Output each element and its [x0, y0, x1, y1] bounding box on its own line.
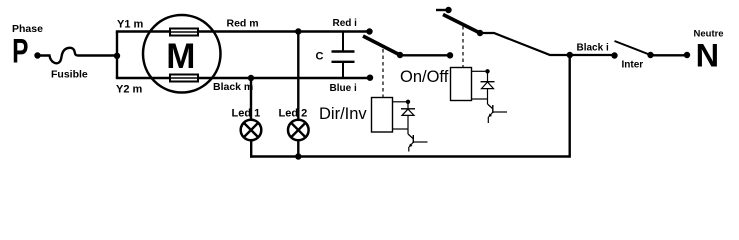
wire bottom rail: [250, 55, 570, 157]
svg-text:Red m: Red m: [227, 17, 259, 29]
wire bottom Y2m/Blackm/Bluei: [116, 77, 370, 79]
wire Led2 vertical: [297, 32, 299, 121]
switch On/Off stub: [436, 9, 449, 11]
wire On/Off pivot to Black i: [480, 33, 615, 55]
svg-text:Blue i: Blue i: [330, 83, 357, 94]
motor M circle: [143, 15, 221, 93]
wire Led1 to rail: [250, 140, 252, 158]
svg-text:Inter: Inter: [622, 60, 644, 71]
transistor Q1: [408, 134, 413, 139]
dashed link On/Off: [462, 26, 464, 68]
switch On/Off blade: [443, 15, 480, 34]
relay coil K1 Dir/Inv box: [372, 98, 393, 133]
node Inter left contact: [611, 52, 617, 58]
diode D1: [407, 102, 409, 109]
node Inter pivot: [647, 52, 653, 58]
node N terminal: [684, 52, 690, 58]
fuse Fusible (squiggle): [39, 48, 117, 63]
switch Inter blade: [615, 41, 651, 55]
lamp Led1: [241, 120, 262, 141]
node Black i junction: [567, 52, 573, 58]
relay K2 bottom stub: [472, 98, 488, 100]
svg-text:Led 2: Led 2: [279, 108, 308, 120]
dashed link Dir/Inv: [382, 49, 384, 98]
node On/Off top contact: [445, 7, 451, 13]
relay K1 bottom stub: [393, 128, 409, 130]
node Dir/Inv pivot: [397, 52, 403, 58]
node Blue i terminal: [367, 75, 373, 81]
svg-text:Y1 m: Y1 m: [117, 18, 144, 30]
svg-text:C: C: [316, 51, 324, 63]
node K2 diode junction: [485, 69, 489, 73]
svg-text:Dir/Inv: Dir/Inv: [319, 105, 367, 123]
svg-text:Fusible: Fusible: [51, 68, 88, 80]
svg-text:Led 1: Led 1: [232, 108, 261, 120]
svg-text:M: M: [166, 37, 195, 76]
node rail Led2 junction: [295, 153, 301, 159]
node K1 diode junction: [406, 100, 410, 104]
node phase junction: [114, 53, 120, 59]
wire top Y1m/Redm/Redi: [116, 30, 370, 32]
wire Led2 to rail: [297, 140, 299, 158]
node terminal right of Dir/Inv: [447, 52, 453, 58]
svg-text:P: P: [12, 33, 28, 71]
node after P: [34, 52, 40, 58]
brush fuse top: [170, 29, 198, 36]
relay K2 top stub: [472, 70, 488, 72]
switch Dir/Inv blade: [363, 36, 400, 55]
transistor Q2: [488, 104, 493, 109]
svg-text:Black m: Black m: [213, 81, 253, 93]
brush fuse bottom: [170, 75, 198, 82]
svg-text:Red i: Red i: [333, 18, 358, 29]
capacitor C leads: [342, 32, 344, 52]
diode D2: [487, 71, 489, 81]
relay coil K2 On/Off box: [451, 68, 472, 101]
svg-text:On/Off: On/Off: [400, 68, 449, 86]
wire Dir/Inv pivot to terminal: [400, 54, 450, 56]
node bottom Led1 junction: [248, 75, 254, 81]
node On/Off pivot: [477, 30, 483, 36]
svg-text:Black i: Black i: [577, 43, 609, 54]
lamp Led2: [288, 120, 309, 141]
node top Led2 junction: [295, 28, 301, 34]
svg-text:N: N: [696, 37, 719, 73]
wire Inter to N: [651, 54, 688, 56]
capacitor C plates: [332, 50, 355, 52]
svg-text:Y2 m: Y2 m: [116, 84, 143, 96]
node Red i terminal: [366, 28, 372, 34]
relay K1 top stub: [393, 101, 409, 103]
wire Led1 vertical: [250, 78, 252, 121]
wire vertical phase split: [116, 32, 118, 79]
